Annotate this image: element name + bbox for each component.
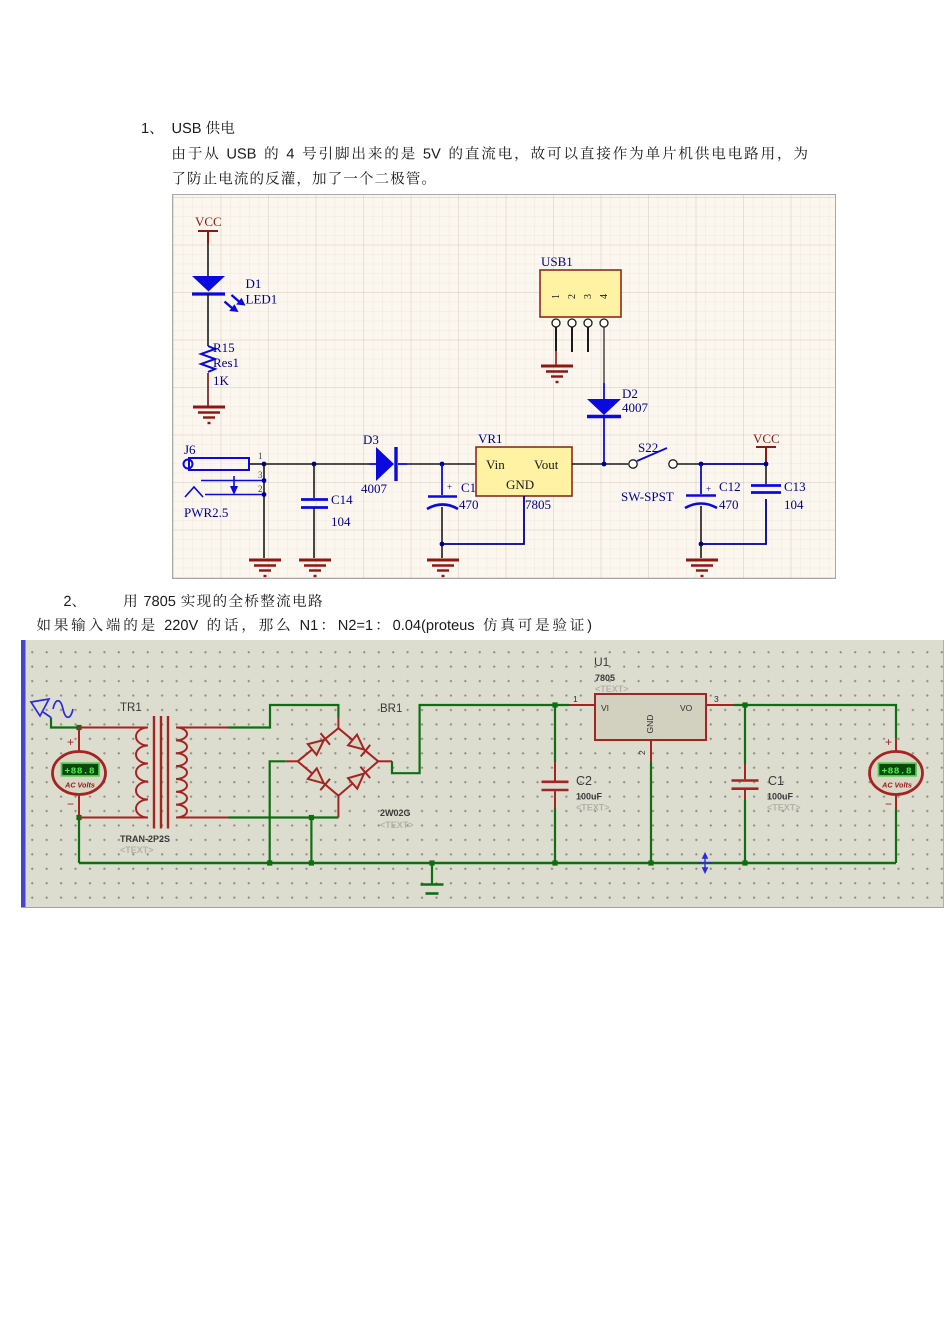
svg-text:−: − bbox=[67, 797, 74, 811]
wire J6 to main node bbox=[249, 463, 264, 465]
wire node E to C1 bbox=[744, 705, 746, 764]
node B junction bbox=[76, 815, 81, 820]
junction dot VCC/C13 bbox=[764, 462, 769, 467]
wire bridge left to 0V rail bbox=[270, 761, 286, 863]
capacitor C14 bbox=[301, 500, 328, 508]
junction dot C1 ground bbox=[440, 542, 445, 547]
svg-text:C13: C13 bbox=[784, 479, 806, 494]
wire C2 to 0V rail bbox=[554, 809, 556, 864]
svg-text:VI: VI bbox=[601, 703, 609, 713]
0V rail wire bbox=[79, 862, 896, 864]
connector USB1 bbox=[540, 270, 621, 317]
svg-text:3: 3 bbox=[714, 694, 719, 704]
wire node D to C2 bbox=[554, 705, 556, 762]
svg-text:104: 104 bbox=[331, 514, 351, 529]
transformer TR1 primary lead top bbox=[79, 727, 148, 729]
svg-text:Res1: Res1 bbox=[213, 355, 239, 370]
svg-text:S22: S22 bbox=[638, 440, 658, 455]
svg-text:+88.8: +88.8 bbox=[65, 766, 96, 777]
capacitor C12 (electrolytic) bbox=[685, 464, 717, 544]
bridge bottom stub bbox=[337, 796, 339, 818]
right voltmeter + stub bbox=[895, 739, 897, 752]
ground (under R15) bbox=[193, 407, 225, 423]
svg-text:TRAN-2P2S: TRAN-2P2S bbox=[120, 834, 170, 844]
svg-text:104: 104 bbox=[784, 497, 804, 512]
svg-text:AC Volts: AC Volts bbox=[64, 781, 95, 790]
svg-text:100uF: 100uF bbox=[576, 792, 603, 802]
svg-text:4007: 4007 bbox=[622, 400, 649, 415]
svg-text:+: + bbox=[885, 735, 892, 749]
svg-text:D3: D3 bbox=[363, 432, 379, 447]
U1 pin 3 stub bbox=[706, 704, 734, 706]
junction dot C14 bbox=[312, 462, 317, 467]
bridge diode bottom-right bbox=[348, 767, 370, 789]
node A junction bbox=[76, 725, 81, 730]
junction dot C12 bbox=[699, 462, 704, 467]
resistor R15 bbox=[201, 346, 215, 372]
svg-text:<TEXT>: <TEXT> bbox=[595, 684, 629, 694]
transformer TR1 primary winding bbox=[136, 728, 148, 818]
wire C1 to 0V rail bbox=[744, 800, 746, 863]
wire C1 to ground bbox=[441, 544, 443, 558]
wire node A to voltmeter + bbox=[78, 728, 80, 753]
bridge rectifier BR1 outline bbox=[298, 728, 379, 796]
power symbol VCC (right) bbox=[756, 447, 776, 464]
wire secondary top to bridge top bbox=[229, 705, 339, 728]
bridge top stub bbox=[337, 718, 339, 729]
bridge right stub bbox=[378, 760, 392, 762]
wire C12 to ground bbox=[700, 544, 702, 558]
rail junction (node C) bbox=[309, 860, 314, 865]
svg-text:D1: D1 bbox=[246, 276, 262, 291]
rail junction (C1) bbox=[742, 860, 747, 865]
svg-text:GND: GND bbox=[645, 715, 655, 734]
rail junction (C2) bbox=[552, 860, 557, 865]
transformer TR1 secondary lead top bbox=[176, 727, 229, 729]
wire U1 output to right voltmeter bbox=[734, 705, 896, 739]
svg-text:2: 2 bbox=[567, 294, 578, 299]
text L1b bbox=[173, 123, 181, 133]
wire generator to node A bbox=[51, 718, 79, 728]
U1 pin 2 stub bbox=[650, 740, 652, 762]
AC voltmeter (right) bbox=[870, 752, 923, 795]
ground (under C12) bbox=[686, 560, 718, 576]
wire USB1 pin4 to D2 bbox=[603, 327, 605, 383]
ground (under J6) bbox=[249, 560, 281, 576]
wire C12 node to VCC node bbox=[701, 463, 766, 465]
svg-text:100uF: 100uF bbox=[767, 792, 794, 802]
svg-text:Vout: Vout bbox=[534, 457, 559, 472]
svg-text:1K: 1K bbox=[213, 373, 230, 388]
origin marker bbox=[698, 854, 713, 873]
bridge diode top-right bbox=[348, 735, 370, 757]
junction dots at J6 bbox=[262, 462, 267, 467]
svg-text:VCC: VCC bbox=[753, 431, 780, 446]
svg-text:VR1: VR1 bbox=[478, 431, 503, 446]
junction dot C12 ground bbox=[699, 542, 704, 547]
ground (under C1) bbox=[427, 560, 459, 576]
svg-text:U1: U1 bbox=[594, 655, 610, 669]
wire D3 to VR1 bbox=[407, 463, 476, 465]
wire voltmeter − to node B bbox=[78, 795, 80, 818]
svg-text:D2: D2 bbox=[622, 386, 638, 401]
svg-text:C12: C12 bbox=[719, 479, 741, 494]
svg-text:C14: C14 bbox=[331, 492, 353, 507]
svg-text:<TEXT>: <TEXT> bbox=[120, 845, 154, 855]
switch S22 bbox=[629, 448, 677, 468]
wire right voltmeter to 0V rail bbox=[895, 810, 897, 864]
wire VR1 out to switch bbox=[572, 463, 628, 465]
LED D1 bbox=[192, 276, 246, 312]
node D junction (C2/U1 input) bbox=[552, 702, 557, 707]
capacitor C1 (electrolytic) bbox=[427, 464, 458, 544]
document text bbox=[0, 0, 950, 660]
wire USB1 pin3 stub bbox=[587, 327, 589, 352]
ground symbol bbox=[421, 863, 444, 894]
svg-text:2: 2 bbox=[258, 484, 263, 494]
svg-text:470: 470 bbox=[459, 497, 479, 512]
text L5 bbox=[37, 618, 50, 631]
svg-text:VCC: VCC bbox=[195, 214, 222, 229]
svg-text:Vin: Vin bbox=[486, 457, 505, 472]
generator sine symbol bbox=[53, 701, 73, 718]
transformer TR1 secondary lead bottom bbox=[176, 817, 229, 819]
svg-text:GND: GND bbox=[506, 477, 534, 492]
svg-text:−: − bbox=[885, 797, 892, 811]
capacitor C13 bbox=[751, 464, 781, 493]
rail junction (U1 GND) bbox=[648, 860, 653, 865]
transformer TR1 core bbox=[154, 716, 168, 829]
wire R15 to ground bbox=[207, 373, 209, 406]
wire USB1 pin2 stub bbox=[571, 327, 573, 352]
svg-text:<TEXT>: <TEXT> bbox=[576, 803, 610, 813]
svg-text:TR1: TR1 bbox=[120, 702, 142, 714]
svg-text:1: 1 bbox=[551, 294, 562, 299]
svg-text:BR1: BR1 bbox=[380, 703, 402, 715]
svg-text:3: 3 bbox=[258, 470, 263, 480]
wire LED to R15 bbox=[207, 294, 209, 346]
svg-text:J6: J6 bbox=[184, 442, 196, 457]
rail junction (bridge left) bbox=[267, 860, 272, 865]
svg-text:AC Volts: AC Volts bbox=[881, 781, 912, 790]
node E junction (C1/U1 output) bbox=[742, 702, 747, 707]
svg-text:7805: 7805 bbox=[595, 673, 615, 683]
svg-text:<TEXT>: <TEXT> bbox=[767, 803, 801, 813]
svg-text:R15: R15 bbox=[213, 340, 235, 355]
wire secondary bottom to node C bbox=[229, 816, 312, 818]
wire node C down to 0V rail bbox=[310, 818, 312, 864]
text L4b bbox=[124, 594, 137, 607]
AC voltmeter (left) bbox=[53, 752, 106, 795]
node C junction bbox=[309, 815, 314, 820]
svg-text:+: + bbox=[67, 735, 74, 749]
generator probe arrow bbox=[31, 699, 51, 718]
svg-text:4: 4 bbox=[599, 294, 610, 299]
text L4a bbox=[64, 596, 71, 606]
svg-text:+: + bbox=[447, 482, 452, 492]
wire node B down to 0V rail bbox=[78, 818, 80, 864]
regulator U1 body bbox=[595, 694, 706, 740]
ground (under C14) bbox=[299, 560, 331, 576]
svg-text:+88.8: +88.8 bbox=[882, 766, 913, 777]
wire USB1 pin1 to ground bbox=[555, 327, 557, 365]
diode D2 bbox=[587, 383, 621, 464]
svg-text:4007: 4007 bbox=[361, 481, 388, 496]
regulator VR1 bbox=[476, 447, 572, 496]
text L3 bbox=[173, 172, 185, 185]
USB1 pin circles bbox=[552, 319, 608, 327]
rail junction (ground) bbox=[429, 860, 434, 865]
svg-text:C1: C1 bbox=[768, 774, 784, 788]
wire VCC to LED bbox=[207, 243, 209, 277]
svg-text:2W02G: 2W02G bbox=[380, 808, 411, 818]
main wire J6 to D3 bbox=[264, 463, 369, 465]
svg-text:LED1: LED1 bbox=[246, 292, 278, 307]
svg-text:C1: C1 bbox=[461, 480, 476, 495]
svg-text:C2: C2 bbox=[576, 774, 592, 788]
bridge diode left-bottom bbox=[308, 768, 330, 790]
capacitor C1 bbox=[732, 764, 759, 801]
svg-text:1: 1 bbox=[258, 451, 263, 461]
wire bridge bottom to node C bbox=[311, 816, 338, 818]
wire VR1 GND loop bbox=[442, 496, 524, 544]
wire C12 to C13 bottom loop bbox=[701, 499, 766, 544]
text L2 bbox=[173, 146, 184, 159]
ground (under USB1 pin1) bbox=[541, 366, 573, 382]
svg-text:7805: 7805 bbox=[525, 497, 551, 512]
wire J6 down to ground bbox=[263, 464, 265, 558]
schematic 2: Proteus 7805 full-bridge rectifier bbox=[21, 640, 944, 908]
junction dot C1 bbox=[440, 462, 445, 467]
wire switch to C12 node bbox=[677, 463, 701, 465]
wire U1 GND to 0V rail bbox=[650, 762, 652, 863]
power symbol VCC (left) bbox=[198, 231, 218, 243]
diode D3 bbox=[369, 447, 407, 481]
wire bridge right to U1 input bbox=[392, 705, 569, 773]
wire down to C14 bbox=[313, 464, 315, 498]
junction dot D2 bbox=[602, 462, 607, 467]
svg-text:2: 2 bbox=[637, 750, 647, 755]
svg-text:PWR2.5: PWR2.5 bbox=[184, 505, 228, 520]
svg-text:<TEXT>: <TEXT> bbox=[380, 820, 414, 830]
text L1a bbox=[142, 123, 148, 133]
capacitor C2 bbox=[542, 762, 569, 809]
svg-text:VO: VO bbox=[680, 703, 693, 713]
schematic 1: Altium USB power schematic bbox=[172, 194, 836, 579]
right voltmeter − stub bbox=[895, 795, 897, 810]
editor left edge blue band bbox=[21, 640, 26, 907]
svg-text:+: + bbox=[706, 484, 711, 494]
svg-text:470: 470 bbox=[719, 497, 739, 512]
svg-text:3: 3 bbox=[583, 294, 594, 299]
transformer TR1 secondary winding bbox=[176, 728, 187, 818]
bridge left stub bbox=[285, 760, 297, 762]
svg-text:SW-SPST: SW-SPST bbox=[621, 489, 674, 504]
transformer TR1 primary lead bottom bbox=[79, 817, 148, 819]
connector J6 bbox=[184, 458, 265, 497]
U1 pin 1 stub bbox=[569, 704, 595, 706]
svg-text:USB1: USB1 bbox=[541, 254, 573, 269]
svg-text:1: 1 bbox=[573, 694, 578, 704]
wire C14 to ground bbox=[313, 508, 315, 558]
bridge diode left-top bbox=[308, 733, 330, 755]
